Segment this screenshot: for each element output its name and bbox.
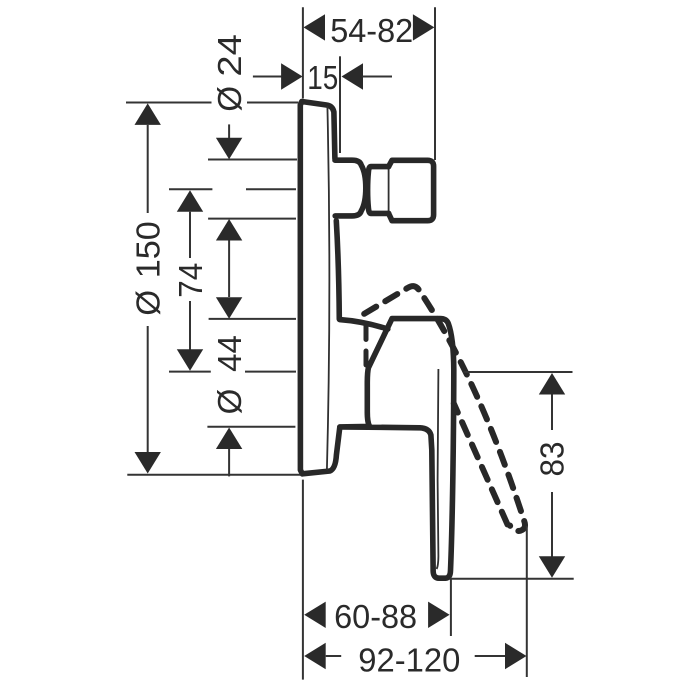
dimension 83 [539, 373, 565, 395]
svg-text:Ø: Ø [211, 389, 248, 415]
extension line: 83 top [464, 371, 573, 373]
svg-text:150: 150 [129, 221, 166, 278]
dimension Ø 150 [135, 103, 161, 125]
extension line E3: connector axis [169, 188, 296, 190]
hidden stem dashed stub [364, 326, 369, 369]
extension line: 54-82 right (x=435) [434, 7, 436, 160]
svg-text:Ø: Ø [129, 290, 166, 316]
wall plate back edge middle segment [336, 221, 339, 319]
svg-text:24: 24 [211, 34, 248, 77]
extension line E8: hub bottom [207, 426, 295, 428]
handle hub top arc [340, 320, 388, 329]
extension line: 83 bottom [450, 578, 574, 580]
svg-text:44: 44 [211, 335, 248, 372]
svg-text:Ø: Ø [211, 86, 248, 112]
extension line E2: connector top [208, 159, 297, 161]
extension line E7: hub axis [169, 371, 296, 373]
handle lever solid outline [340, 319, 454, 579]
handle blade inner contour [437, 369, 439, 569]
dashed handle inner edge [454, 404, 508, 525]
dimension Ø 24 upper arrow [228, 124, 230, 138]
dimension 15 [253, 76, 282, 78]
svg-text:54-82: 54-82 [330, 12, 413, 49]
spout connector neck [335, 160, 366, 216]
dashed handle raised position outer edge [364, 286, 524, 521]
dimension 60-88 [304, 602, 326, 628]
extension line: 60-88 right (x=450.9) [450, 579, 452, 636]
spout connector cylinder [368, 167, 389, 214]
extension line: plate left face top (x=302.9) [302, 7, 304, 98]
extension line: plate left face bottom [302, 480, 304, 680]
svg-text:60-88: 60-88 [334, 598, 417, 635]
extension line E4: connector bottom [208, 218, 296, 220]
wall plate back edge lower segment + bottom edge [302, 427, 340, 474]
dimension 54-82 [304, 14, 326, 40]
wall plate front contour line [327, 106, 329, 470]
svg-text:15: 15 [307, 59, 338, 96]
dimension 92-120 [304, 643, 326, 669]
extension line E6: hub top [209, 318, 296, 320]
dimension Ø 44 arrows (between E4 and E6) [216, 219, 242, 241]
extension line: 15 right (x=340) [339, 56, 341, 153]
dimension 74 [177, 190, 203, 212]
extension line E1: plate top [126, 102, 298, 104]
svg-text:92-120: 92-120 [358, 641, 460, 678]
dashed handle tip [510, 521, 525, 531]
spout connector cylinder/cap divider [388, 167, 390, 214]
spout connector end cap [389, 160, 434, 220]
svg-text:74: 74 [172, 263, 209, 298]
wall plate outline (side view) [300, 102, 335, 474]
dimension Ø 44 lower outside arrow [216, 428, 242, 450]
svg-text:83: 83 [534, 442, 571, 477]
extension line E9: plate bottom [127, 474, 300, 476]
extension line: 92-120 right (x=526.8) [526, 526, 528, 677]
